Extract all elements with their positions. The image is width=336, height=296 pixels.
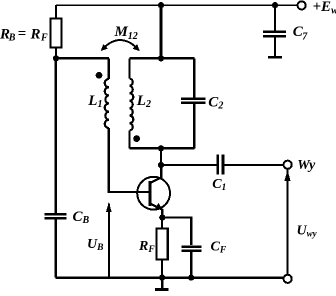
arrowhead UB up — [106, 202, 112, 212]
svg-text:C2: C2 — [208, 94, 223, 111]
svg-text:L2: L2 — [136, 93, 151, 110]
svg-text:12: 12 — [128, 31, 138, 42]
svg-text:UB: UB — [87, 237, 103, 253]
mutual coupling M12 arc — [103, 40, 137, 49]
wire collector link — [160, 148, 162, 165]
wire C2 bottom lead — [193, 104, 195, 148]
svg-text:F: F — [40, 32, 48, 43]
wire RF top lead — [161, 218, 163, 229]
node emitter junction — [159, 214, 165, 220]
arrowhead M12 left — [101, 44, 108, 51]
inductor L1 — [105, 79, 109, 128]
wire bottom rail — [56, 276, 284, 278]
Cz end bar — [268, 56, 282, 59]
wire tank bottom side — [130, 147, 195, 149]
node collector junction — [158, 162, 164, 168]
terminal +E — [298, 1, 306, 9]
wire RF bottom lead — [161, 260, 163, 278]
wire tank top side — [130, 57, 195, 59]
svg-text:Wy: Wy — [297, 158, 316, 173]
wire Cz bottom lead — [274, 37, 276, 56]
node junction RB-bottom — [53, 55, 59, 61]
wire C1 to Wy terminal — [225, 164, 284, 166]
arrowhead Uwy up — [284, 170, 290, 181]
wire top connector x161 — [160, 5, 163, 58]
capacitor CF — [181, 245, 201, 248]
terminal bottom right — [284, 275, 292, 283]
wire L2 top lead — [129, 58, 131, 78]
ground bar — [155, 288, 169, 291]
transistor Q1 emitter lead — [150, 204, 162, 218]
wire C2 top lead — [193, 58, 195, 97]
svg-text:R: R — [30, 27, 41, 43]
svg-text:L1: L1 — [87, 93, 102, 110]
wire L2 bottom lead — [129, 131, 131, 149]
svg-text:B: B — [8, 33, 16, 44]
node top rail x161 — [158, 2, 164, 8]
capacitor C2 — [181, 97, 206, 100]
wire L1 top lead — [108, 58, 110, 79]
transistor Q1 collector lead — [150, 165, 161, 183]
svg-text:M: M — [114, 24, 129, 40]
capacitor C1 — [216, 155, 219, 175]
svg-text:=: = — [18, 26, 27, 42]
capacitor CB — [44, 213, 66, 216]
svg-text:7: 7 — [302, 32, 308, 43]
wire left rail down (through CB) — [55, 58, 57, 213]
polarity dot L1 — [96, 72, 103, 79]
node CF bottom — [188, 275, 194, 281]
transistor Q1 base bar — [148, 181, 151, 206]
polarity dot L2 — [133, 135, 140, 142]
terminal Wy — [284, 161, 292, 169]
node top rail Cz junction — [272, 2, 278, 8]
arrow UB measurement — [108, 204, 110, 278]
svg-text:RF: RF — [138, 239, 155, 255]
wire Uwy measurement line — [287, 169, 289, 274]
node tank bottom — [158, 145, 164, 151]
wire CF bottom lead — [190, 252, 192, 278]
node tank top — [158, 55, 164, 61]
resistor RF — [157, 229, 168, 260]
ground stub — [161, 278, 164, 288]
arrowhead M12 right — [133, 44, 140, 51]
resistor RB=RF — [50, 19, 61, 48]
wire L1 bottom lead to base — [109, 128, 149, 192]
node RF bottom — [159, 275, 165, 281]
wire resistor RB bottom lead — [55, 48, 57, 59]
wire resistor RB top lead — [55, 5, 57, 18]
svg-text:+Ew: +Ew — [313, 0, 336, 16]
svg-text:C1: C1 — [212, 177, 226, 193]
capacitor Cz — [263, 31, 286, 34]
svg-text:Uwy: Uwy — [297, 223, 318, 238]
wire emitter to CE branch — [162, 218, 191, 246]
transistor Q1 emitter arrow — [155, 203, 163, 210]
wire Cz top lead — [274, 5, 276, 31]
wire rail2 left (to L1 top) — [56, 57, 109, 59]
transistor Q1 circle — [137, 177, 170, 210]
wire top rail — [56, 4, 298, 6]
svg-text:CB: CB — [73, 209, 90, 226]
svg-text:CF: CF — [211, 239, 227, 255]
wire output to C1 — [161, 164, 216, 166]
inductor L2 — [130, 79, 134, 131]
